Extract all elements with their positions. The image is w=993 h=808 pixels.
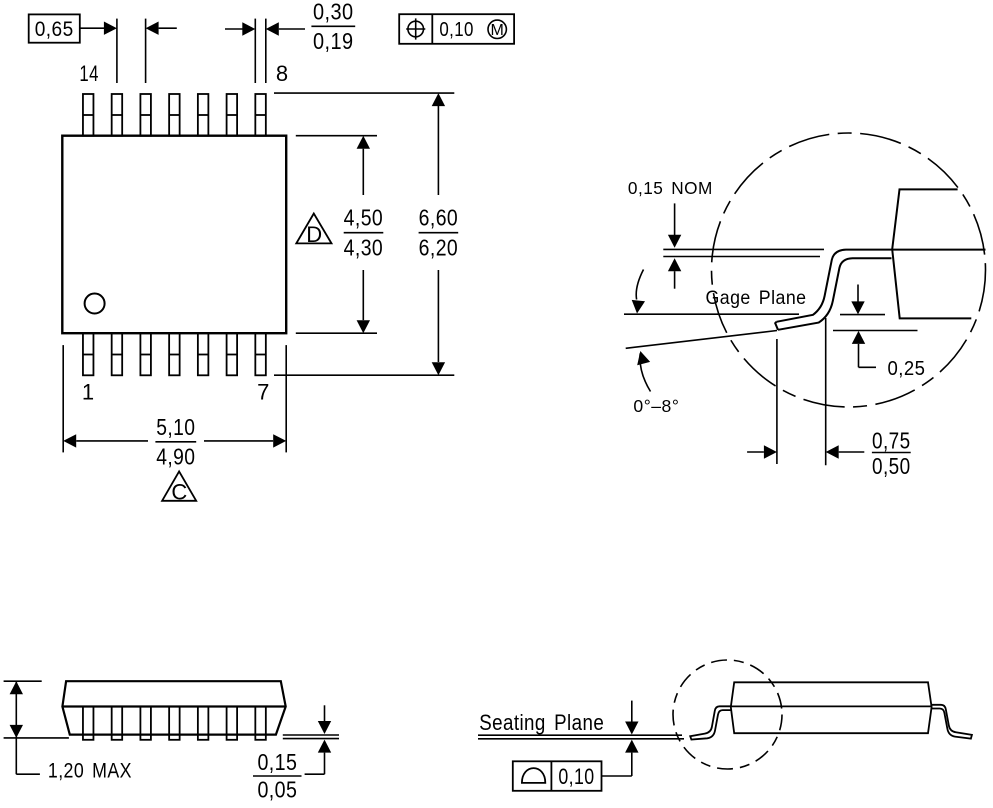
lead tip edge [775,322,778,330]
svg-text:0°–8°: 0°–8° [633,396,679,416]
pitch arrow left [146,22,159,35]
pin 8 (top row) [255,94,266,136]
arrow down to lead top [674,203,676,235]
package body top view [62,136,286,334]
package body side view [62,681,285,734]
dim 0,25 down arrow [857,285,859,303]
svg-text:4,90: 4,90 [156,444,195,470]
pitch extension line pin13 [116,19,118,83]
seating plane line left [4,737,69,739]
package body side view 2 [731,682,932,733]
svg-text:0,15: 0,15 [257,749,297,775]
pin 2 (bottom row) [112,333,123,375]
dim 1,20 MAX line [15,681,17,774]
side view lead 2 [112,707,123,740]
dim 5,10/4,90 extension lines [62,345,64,452]
dim 5,10/4,90 dimension line [63,434,76,447]
pin 1 (bottom row) [83,333,94,375]
svg-text:4,50: 4,50 [344,205,384,231]
svg-text:6,60: 6,60 [419,205,459,231]
dim 6,60/6,20 extension lines [274,92,454,94]
svg-text:0,10: 0,10 [439,18,474,41]
angle leader arc lower with arrow [640,354,651,392]
svg-text:Gage Plane: Gage Plane [706,287,807,309]
lead thickness ref line upper [663,248,824,250]
svg-text:8: 8 [276,61,289,86]
side view lead 7 [255,707,266,740]
dim 0,75/0,50 extension lines [776,339,778,464]
body mid parting line [62,705,285,707]
side view lead 5 [198,707,209,740]
svg-text:0,50: 0,50 [872,453,911,479]
pin 7 (bottom row) [255,333,266,375]
dim 0,25 upper ref line [840,314,885,316]
side view lead 1 [83,707,94,740]
pin 3 (bottom row) [140,333,151,375]
dim 0,25 lower ref line (seating) [833,330,918,332]
svg-text:0,65: 0,65 [35,18,74,41]
side view lead 6 [227,707,238,740]
detail dashed circle [712,133,986,407]
angle reference slanted line 0-8 deg [626,331,777,349]
pin 6 (bottom row) [227,333,238,375]
lead thickness ref line lower [663,256,820,258]
lead width extension lines pin8 [254,19,256,83]
dim 0,15/0,05 arrows [324,705,326,721]
svg-text:0,25: 0,25 [888,357,926,380]
pin 9 (top row) [227,94,238,136]
arrow up to lead bottom [668,258,681,271]
right lead outline [932,705,972,739]
svg-text:14: 14 [79,61,98,86]
svg-text:D: D [306,222,322,247]
pin 13 (top row) [112,94,123,136]
svg-text:0,75: 0,75 [872,427,911,453]
svg-text:M: M [491,22,504,39]
dim 0,15/0,05 ref lines [283,734,339,736]
pitch extension line pin12 [145,19,147,83]
svg-text:0,30: 0,30 [313,0,354,24]
svg-text:7: 7 [257,380,270,405]
svg-text:1: 1 [82,380,95,405]
dim 0,65 box [29,14,80,42]
svg-text:Seating Plane: Seating Plane [479,710,604,735]
dim 0,25 up arrow [852,331,865,344]
svg-text:0,05: 0,05 [257,777,297,803]
lead outline outer (top surface) [776,250,985,322]
dim 0,65 leader arrow [80,27,104,29]
pin 4 (bottom row) [169,333,180,375]
datum C symbol [162,471,196,504]
gage plane leader arc with arrow [636,270,643,300]
dim 0,75/0,50 arrows [747,451,764,453]
feature control frame: profile 0,10 [513,761,602,791]
dim 6,60/6,20 dimension line [437,106,439,195]
svg-text:4,30: 4,30 [344,234,384,260]
body mid line 2 [731,705,932,707]
svg-text:6,20: 6,20 [419,234,459,260]
seating plane double line [478,734,682,736]
svg-text:C: C [171,480,187,505]
svg-text:0,15 NOM: 0,15 NOM [628,178,713,198]
pin 14 (top row) [83,94,94,136]
svg-text:0,19: 0,19 [313,28,354,54]
dim 4,50/4,30 dimension line [362,149,364,195]
svg-text:0,10: 0,10 [558,764,594,789]
dim 4,50/4,30 extension lines [296,135,377,137]
lead outline inner (bottom surface) [778,258,892,330]
pin 10 (top row) [198,94,209,136]
svg-text:5,10: 5,10 [156,414,195,440]
dashed circle bottom right [673,660,782,769]
side view lead 4 [169,707,180,740]
dim 0,25 leader [859,366,877,368]
left lead outline [690,706,731,739]
feature control frame: position tolerance [399,14,514,44]
pin 11 (top row) [169,94,180,136]
svg-text:1,20 MAX: 1,20 MAX [48,760,132,783]
pin 12 (top row) [140,94,151,136]
gage plane line [624,313,799,315]
body edge in detail [892,189,971,318]
datum D symbol [296,214,331,248]
pin 5 (bottom row) [198,333,209,375]
top extension line [4,680,42,682]
lead width arrows [225,28,243,30]
side view lead 3 [140,707,151,740]
pin 1 index circle [85,294,105,314]
seating plane arrows [631,701,633,722]
